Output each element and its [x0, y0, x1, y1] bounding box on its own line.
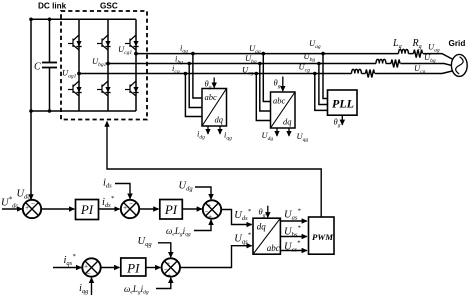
svg-text:Uds*: Uds* — [234, 208, 251, 222]
svg-text:+: + — [25, 204, 30, 212]
svg-text:−: − — [31, 200, 36, 208]
svg-text:Ucg: Ucg — [242, 64, 254, 76]
svg-text:θg: θg — [259, 207, 266, 219]
svg-text:Udg: Udg — [262, 130, 274, 142]
svg-text:GSC: GSC — [100, 2, 118, 11]
svg-text:Uqs*: Uqs* — [234, 232, 251, 246]
svg-text:Uqg: Uqg — [138, 236, 153, 248]
svg-text:θg: θg — [334, 117, 341, 129]
svg-text:ids*: ids* — [102, 195, 115, 209]
svg-text:Rg: Rg — [412, 38, 422, 50]
svg-text:+: + — [167, 272, 172, 280]
svg-text:abc: abc — [205, 92, 218, 102]
svg-text:PI: PI — [126, 261, 140, 276]
svg-text:Ucs*: Ucs* — [284, 240, 301, 254]
svg-text:+: + — [208, 213, 213, 221]
svg-text:iag: iag — [180, 43, 188, 55]
svg-text:iqg: iqg — [224, 130, 232, 142]
svg-text:PI: PI — [80, 202, 94, 217]
svg-text:Udc: Udc — [17, 189, 31, 201]
svg-text:θg: θg — [274, 78, 281, 90]
svg-text:Lg: Lg — [392, 38, 402, 50]
svg-text:idg: idg — [197, 129, 205, 141]
svg-text:Uag1: Uag1 — [62, 68, 77, 80]
svg-text:abc: abc — [267, 243, 280, 253]
svg-text:Uqg: Uqg — [297, 131, 309, 143]
svg-text:Udg: Udg — [179, 181, 194, 193]
svg-text:ωeLgidg: ωeLgidg — [124, 284, 149, 295]
svg-text:+: + — [123, 204, 128, 212]
svg-text:−: − — [86, 270, 91, 278]
svg-text:Uag: Uag — [309, 38, 321, 50]
svg-text:PI: PI — [164, 202, 178, 217]
svg-text:PLL: PLL — [332, 97, 354, 111]
svg-text:dq: dq — [257, 222, 267, 232]
svg-text:iqs*: iqs* — [64, 253, 77, 267]
svg-text:ωeLgiqg: ωeLgiqg — [166, 226, 191, 238]
svg-text:Ubg: Ubg — [304, 51, 316, 63]
svg-text:Grid: Grid — [449, 39, 466, 48]
svg-text:Uas*: Uas* — [284, 208, 301, 222]
svg-text:Ubg1: Ubg1 — [92, 56, 107, 68]
svg-text:dq: dq — [283, 117, 292, 127]
svg-text:abc: abc — [273, 96, 286, 106]
svg-text:−: − — [129, 200, 134, 208]
svg-text:ids: ids — [103, 178, 112, 190]
svg-text:iqg: iqg — [79, 283, 89, 295]
svg-text:DC link: DC link — [38, 2, 67, 11]
svg-text:dq: dq — [215, 115, 224, 125]
svg-text:PWM: PWM — [312, 232, 334, 242]
svg-text:C: C — [34, 62, 41, 73]
